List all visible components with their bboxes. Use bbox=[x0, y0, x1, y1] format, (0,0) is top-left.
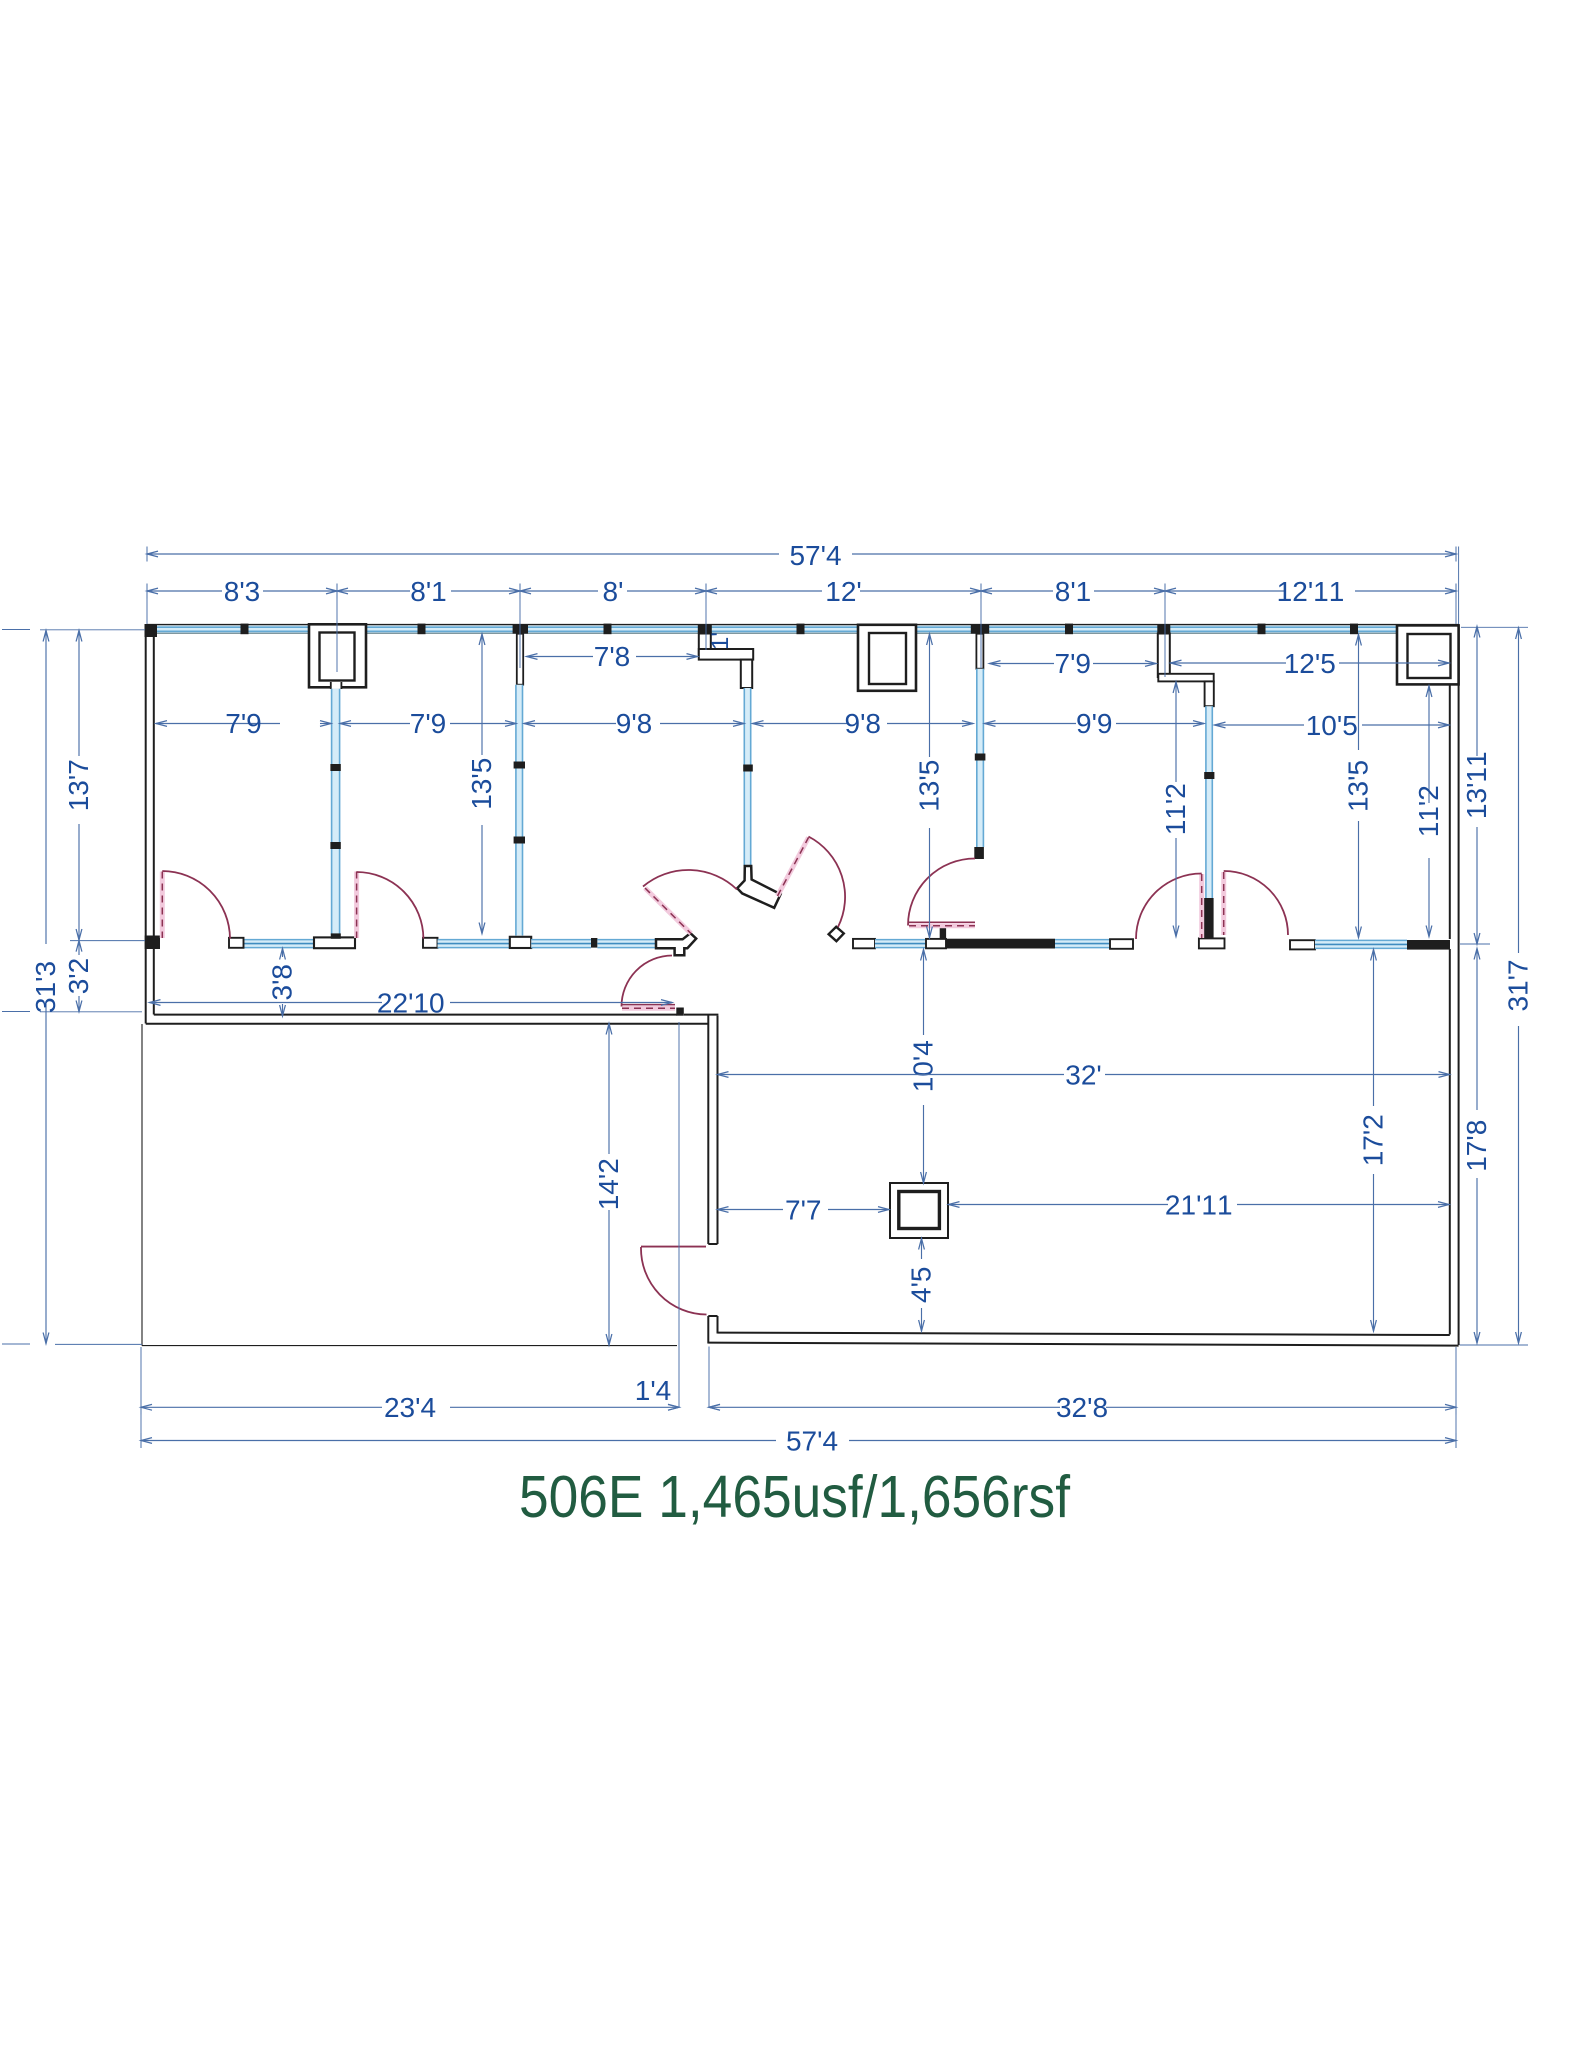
column box C3 inner bbox=[1408, 634, 1451, 678]
partition P1 cyan wall bbox=[332, 689, 340, 936]
dim 8'1 right bbox=[981, 590, 1053, 592]
svg-text:3'8: 3'8 bbox=[267, 964, 298, 1001]
dim bottom left tick 23'4 bbox=[140, 1400, 142, 1415]
partition P2 black stem bbox=[517, 634, 523, 685]
left extension line bottom bbox=[55, 1343, 142, 1345]
partition P5 cyan wall bbox=[1206, 706, 1212, 898]
column box C2 inner bbox=[869, 633, 906, 684]
dim 7'7 bbox=[718, 1209, 784, 1211]
svg-text:9'8: 9'8 bbox=[845, 708, 882, 739]
svg-text:13'11: 13'11 bbox=[1461, 751, 1492, 819]
svg-text:7'9: 7'9 bbox=[225, 708, 262, 739]
dim 12ft bbox=[706, 590, 822, 592]
corridor wall cyan sidelight C bbox=[531, 940, 591, 948]
partition P5 horizontal jog black bbox=[1158, 674, 1213, 682]
left extension line mid bbox=[70, 940, 145, 942]
dim 31'7 bbox=[1518, 628, 1520, 953]
svg-text:32': 32' bbox=[1065, 1060, 1102, 1091]
svg-text:10'5: 10'5 bbox=[1306, 710, 1358, 741]
free-standing column inner box bbox=[899, 1192, 940, 1229]
dim 3'8 bbox=[282, 949, 284, 958]
column box C1 bottom neck gap bbox=[331, 684, 342, 689]
column box C1 neck sides bbox=[330, 682, 332, 689]
top exterior wall cyan window band bbox=[147, 625, 1459, 632]
dim 9'8 b bbox=[753, 723, 849, 725]
door D5 leaf bbox=[909, 923, 975, 928]
dim 57'4 top end ticks bbox=[146, 547, 148, 562]
dim 8'1 left bbox=[337, 590, 410, 592]
corridor wall door D7 stop block bbox=[1290, 940, 1315, 949]
window mullion tick 4 on top wall bbox=[797, 624, 805, 635]
dim 11'2 right bbox=[1428, 686, 1430, 803]
dim 3'2 bbox=[78, 941, 80, 955]
dim 57'4 bottom end ticks bbox=[140, 1433, 142, 1448]
left wall door jamb block at corridor bbox=[145, 936, 160, 950]
svg-text:17'8: 17'8 bbox=[1461, 1120, 1492, 1172]
dim 32'8 line bbox=[709, 1406, 1456, 1408]
dim 7'8 bbox=[527, 656, 594, 658]
corridor wall door D1 stop block bbox=[229, 938, 244, 948]
partition P3 lower vertical black bbox=[741, 660, 752, 688]
svg-text:8'1: 8'1 bbox=[1055, 576, 1092, 607]
svg-text:57'4: 57'4 bbox=[789, 540, 841, 571]
door D1 swing arc bbox=[162, 871, 230, 939]
dim 10'5 bbox=[1215, 724, 1305, 726]
svg-text:12'5: 12'5 bbox=[1284, 648, 1336, 679]
ext line x679 for 1'4 bbox=[678, 1022, 680, 1408]
corridor wall cyan sidelight D bbox=[597, 940, 656, 948]
corridor wall jamb block with stub bbox=[926, 939, 946, 948]
door D9 swing arc bbox=[809, 837, 846, 928]
dim bottom right tick 32'8 bbox=[1455, 1400, 1457, 1415]
partition P4 bottom black jamb bbox=[974, 847, 984, 859]
left exterior wall inner face upper bbox=[153, 637, 155, 936]
column box C2 outer on top wall bbox=[858, 625, 916, 691]
dim 10'4 bbox=[923, 950, 925, 1036]
corridor wall cyan sidelight A bbox=[244, 940, 320, 948]
dim 23'4 bbox=[141, 1406, 382, 1408]
partition P4 tick bbox=[975, 754, 986, 761]
west wall stub top cap bbox=[708, 1315, 717, 1317]
dim 12'11 bbox=[1165, 590, 1284, 592]
svg-text:22'10: 22'10 bbox=[377, 988, 445, 1019]
corridor wall P1 tee stub bbox=[331, 933, 341, 938]
dim 8'3 bbox=[147, 590, 222, 592]
svg-text:31'7: 31'7 bbox=[1503, 959, 1534, 1011]
svg-text:7'9: 7'9 bbox=[410, 708, 447, 739]
lower-right section bottom wall inner face bbox=[718, 1333, 1450, 1335]
window mullion tick 3 on top wall bbox=[604, 624, 612, 635]
door D4 swing arc bbox=[621, 956, 672, 1007]
svg-text:10'4: 10'4 bbox=[908, 1040, 939, 1092]
dim 1'4 arrows and label bbox=[668, 1404, 679, 1410]
partition P5 lower vertical black bbox=[1205, 681, 1214, 706]
dim 31'3 bbox=[45, 631, 47, 945]
dim 13'5 mid bbox=[929, 634, 931, 757]
svg-text:8'1: 8'1 bbox=[410, 576, 447, 607]
svg-text:14'2: 14'2 bbox=[593, 1158, 624, 1210]
dim 13'7 bbox=[78, 631, 80, 757]
corridor wall east end solid segment bbox=[1407, 940, 1450, 950]
svg-text:11'2: 11'2 bbox=[1413, 785, 1444, 837]
upper-left section bottom wall top face bbox=[154, 1014, 677, 1016]
door D8 swing arc bbox=[641, 1247, 707, 1315]
lower-left area thin left boundary line bbox=[141, 1024, 143, 1346]
partition P1 tick upper bbox=[330, 764, 340, 771]
dim 57'4 bottom bbox=[141, 1440, 776, 1442]
svg-text:17'2: 17'2 bbox=[1358, 1114, 1389, 1166]
partition P5 top vertical black bbox=[1157, 624, 1170, 633]
corridor wall east start block bbox=[853, 939, 875, 948]
corridor wall cyan sidelight G bbox=[1315, 940, 1407, 948]
partition P1 tick lower bbox=[330, 842, 340, 849]
svg-text:4'5: 4'5 bbox=[906, 1267, 937, 1304]
left extension line low bbox=[40, 1011, 142, 1013]
svg-text:7'9: 7'9 bbox=[1055, 648, 1092, 679]
svg-text:21'11: 21'11 bbox=[1165, 1190, 1233, 1221]
partition P4 cyan wall bbox=[977, 669, 984, 847]
corridor wall cyan sidelight E bbox=[875, 940, 926, 948]
svg-text:3'2: 3'2 bbox=[63, 958, 94, 995]
left exterior wall outer face bbox=[145, 625, 147, 1024]
svg-text:23'4: 23'4 bbox=[384, 1392, 436, 1423]
lower-left area thin bottom boundary line bbox=[142, 1345, 677, 1347]
vestibule Y-jamb black piece bbox=[737, 866, 780, 908]
svg-text:9'8: 9'8 bbox=[616, 708, 653, 739]
corridor wall cyan sidelight F bbox=[1055, 940, 1110, 948]
corridor wall partition P5 foot block bbox=[1199, 938, 1225, 948]
dim 9'8 a bbox=[524, 723, 616, 725]
column box C1 inner bbox=[320, 633, 355, 681]
bottom wall step top segment to west wall bbox=[684, 1014, 718, 1016]
west wall door D8 opening top cap bbox=[708, 1243, 717, 1245]
corridor wall solid segment bbox=[946, 939, 1055, 949]
column box C3 outer at top-right corner bbox=[1397, 625, 1459, 684]
ext line right corridor horizontal bbox=[1460, 943, 1490, 945]
door D9 leaf (angled) bbox=[778, 838, 809, 897]
extension line stub left page edge bottom bbox=[2, 1343, 30, 1345]
lower-right section west wall outer face bbox=[707, 1015, 709, 1244]
door D3 leaf (angled) bbox=[645, 888, 691, 934]
svg-text:13'5: 13'5 bbox=[466, 758, 497, 810]
svg-text:1': 1' bbox=[707, 632, 734, 650]
partition P3 tick bbox=[743, 765, 753, 772]
corridor wall cyan sidelight B bbox=[438, 940, 511, 948]
dim 7'9 a bbox=[156, 723, 280, 725]
door D7 swing arc bbox=[1224, 871, 1288, 935]
svg-text:506E 1,465usf/1,656rsf: 506E 1,465usf/1,656rsf bbox=[519, 1463, 1070, 1530]
svg-text:57'4: 57'4 bbox=[786, 1426, 838, 1457]
partition P2 cyan wall bbox=[516, 685, 523, 936]
door D7 leaf bbox=[1221, 872, 1226, 935]
dim 13'5 left bbox=[481, 634, 483, 755]
right exterior wall inner face lower bbox=[1449, 949, 1451, 1335]
partition P2 tick lower bbox=[514, 837, 525, 844]
partition P4 top cap bbox=[971, 624, 989, 633]
dim 13'11 bbox=[1476, 627, 1478, 757]
ext line x709 below wall bbox=[708, 1347, 710, 1408]
svg-text:13'5: 13'5 bbox=[1343, 760, 1374, 812]
svg-text:12': 12' bbox=[825, 576, 862, 607]
left wall top corner cap bbox=[145, 624, 158, 637]
ext line top right horizontal bbox=[1461, 626, 1528, 628]
svg-text:7'8: 7'8 bbox=[594, 641, 631, 672]
dim 32'8 arrows+text bbox=[709, 1404, 720, 1410]
corridor wall west end piece with angled tip bbox=[656, 933, 696, 955]
corridor wall partition P2 tee block bbox=[510, 937, 531, 948]
west wall stub below door D8 outer bbox=[707, 1316, 709, 1344]
svg-text:12'11: 12'11 bbox=[1277, 576, 1345, 607]
lower-right section west wall inner face bbox=[717, 1016, 719, 1244]
door D4 jamb stub on bottom wall bbox=[676, 1008, 684, 1016]
dim 8ft bbox=[520, 590, 598, 592]
svg-text:9'9: 9'9 bbox=[1076, 708, 1113, 739]
partition P2 tick upper bbox=[514, 762, 525, 769]
door D1 leaf bbox=[160, 872, 165, 939]
partition P4 black stem bbox=[976, 634, 983, 669]
ext line x1456 bottom right bbox=[1455, 1347, 1457, 1448]
upper-left section bottom wall bottom face bbox=[146, 1023, 708, 1025]
dim 12'5 bbox=[1171, 662, 1287, 664]
lower-right section bottom wall outer face bbox=[708, 1343, 1458, 1346]
partition P3 horizontal jog black bbox=[699, 649, 753, 660]
window mullion tick 5 on top wall bbox=[1065, 624, 1073, 635]
svg-text:11'2: 11'2 bbox=[1160, 783, 1191, 835]
corridor wall door D2 stop block bbox=[423, 938, 438, 948]
partition P3 cyan wall bbox=[744, 688, 750, 866]
vestibule door stop tilted block bbox=[829, 927, 844, 941]
dim row2 boundary ticks bbox=[146, 584, 148, 599]
partition P3 top vertical black bbox=[698, 624, 712, 633]
extension line stub left page edge top bbox=[2, 629, 30, 631]
window mullion tick 6 on top wall bbox=[1258, 624, 1266, 635]
left exterior wall inner face lower bbox=[153, 949, 155, 1015]
dim row2 extension lines into plan bbox=[146, 599, 148, 625]
dim 32ft bbox=[718, 1074, 1065, 1076]
svg-text:31'3: 31'3 bbox=[30, 961, 61, 1013]
corridor wall partition P1 tee block bbox=[314, 937, 355, 948]
free-standing column outer box bbox=[890, 1183, 948, 1238]
svg-text:1'4: 1'4 bbox=[635, 1375, 672, 1406]
dim 57'4 top bbox=[147, 553, 779, 555]
dim 22'10 bbox=[150, 1002, 383, 1004]
svg-text:13'5: 13'5 bbox=[914, 760, 945, 812]
svg-text:13'7: 13'7 bbox=[63, 759, 94, 811]
corridor wall jamb stub up bbox=[940, 928, 946, 939]
dim 11'2 left bbox=[1175, 682, 1177, 782]
window mullion tick 2 on top wall bbox=[418, 624, 426, 635]
door D3 swing arc bbox=[643, 870, 737, 890]
dim 14'2 bbox=[608, 1024, 610, 1155]
right exterior wall inner face upper bbox=[1449, 685, 1451, 939]
window mullion tick 7 on top wall bbox=[1350, 624, 1358, 635]
corridor wall door D6 stop block bbox=[1110, 939, 1133, 949]
partition P2 top cap bbox=[513, 624, 528, 633]
dim 17'2 bbox=[1373, 950, 1375, 1107]
extension line stub left page edge mid bbox=[2, 1011, 30, 1013]
dim 7'9 b bbox=[340, 723, 410, 725]
svg-text:8': 8' bbox=[603, 576, 624, 607]
ext line bottom right horizontal bbox=[1460, 1344, 1529, 1346]
right exterior wall outer face bbox=[1458, 625, 1460, 1345]
column box C1 outer on top wall bbox=[309, 624, 366, 687]
door D6 swing arc bbox=[1136, 873, 1202, 939]
door D2 swing arc bbox=[357, 872, 424, 939]
svg-text:8'3: 8'3 bbox=[224, 576, 261, 607]
door D8 leaf bbox=[641, 1246, 706, 1248]
dim 13'5 right bbox=[1358, 635, 1360, 751]
door D6 leaf bbox=[1199, 874, 1204, 938]
ext line x141 bottom left bbox=[140, 1347, 142, 1448]
partition P5 bottom black jamb bbox=[1204, 898, 1214, 939]
window mullion tick 1 on top wall bbox=[241, 624, 249, 635]
dim 9'9 bbox=[985, 723, 1077, 725]
door D5 swing arc bbox=[908, 859, 975, 926]
door D2 leaf bbox=[354, 872, 359, 939]
svg-text:32'8: 32'8 bbox=[1056, 1392, 1108, 1423]
dim 7'9 c bbox=[990, 663, 1055, 665]
door D4 leaf bbox=[622, 1006, 675, 1011]
svg-text:7'7: 7'7 bbox=[785, 1195, 822, 1226]
dim 17'8 bbox=[1476, 949, 1478, 1111]
left extension line top bbox=[40, 629, 145, 631]
west wall stub below door D8 inner bbox=[717, 1316, 719, 1334]
dim 21'11 bbox=[949, 1204, 1169, 1206]
dim top right extension line bbox=[1458, 547, 1460, 625]
dim 4'5 bbox=[921, 1239, 923, 1260]
corridor wall small tick bbox=[591, 938, 597, 948]
partition P5 tick bbox=[1204, 772, 1214, 779]
